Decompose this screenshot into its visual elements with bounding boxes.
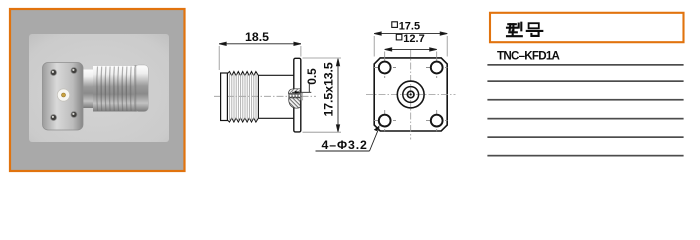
table header orange box xyxy=(490,13,684,42)
dim 17.5 extension lines xyxy=(373,36,375,57)
main centerlines of front view xyxy=(366,94,456,96)
dim 17.5x13.5 extension lines xyxy=(303,57,342,59)
header text HAO (drawn glyph) xyxy=(527,23,543,36)
side view: flange (panel plate) xyxy=(294,58,301,132)
dim 12.7 line with arrows xyxy=(385,48,437,51)
table rule 5 xyxy=(487,136,683,138)
dim 17.5x13.5 vertical line with arrows xyxy=(336,59,339,132)
header text XING (drawn glyph) xyxy=(507,23,522,37)
0.5 protrusion step xyxy=(301,93,303,100)
thread flank lines xyxy=(230,74,256,121)
photo frame (orange border box) xyxy=(10,9,185,171)
thread ridges on cylinder xyxy=(97,67,131,112)
label underline + leader line with arrow xyxy=(316,125,381,151)
dim square12.7 text xyxy=(396,33,424,45)
svg-text:17.5: 17.5 xyxy=(399,21,420,33)
end ring of cylinder xyxy=(135,65,149,112)
centerline (side view axis) xyxy=(214,95,316,97)
svg-text:12.7: 12.7 xyxy=(403,33,424,45)
svg-text:18.5: 18.5 xyxy=(245,30,269,44)
dim 18.5 line with arrows xyxy=(219,42,301,45)
mounting holes front view xyxy=(379,62,443,127)
side view: threaded section outline xyxy=(227,72,258,123)
connector photo: flange plate xyxy=(43,63,84,131)
flange mounting holes xyxy=(51,70,57,76)
hole centerline crosses xyxy=(374,57,448,131)
side view: insulator bushing (hatched) xyxy=(289,89,301,108)
photo inner light panel xyxy=(29,34,169,142)
table rule 4 xyxy=(487,118,683,120)
svg-text:17.5x13.5: 17.5x13.5 xyxy=(322,62,336,116)
dim 17.5 line with arrows xyxy=(374,32,447,35)
svg-text:4–Φ3.2: 4–Φ3.2 xyxy=(322,138,368,152)
center connector circles xyxy=(397,81,424,108)
side view: left end cap xyxy=(221,73,228,121)
table rule 6 xyxy=(487,155,683,157)
table rule 2 xyxy=(487,80,683,82)
connector photo: body cylinder xyxy=(80,65,148,112)
center dielectric + pin xyxy=(57,89,69,101)
table rule 3 xyxy=(487,99,683,101)
svg-text:0.5: 0.5 xyxy=(305,68,319,85)
side view: body between threads and flange xyxy=(258,75,293,118)
dim square17.5 text xyxy=(392,21,420,33)
svg-text:TNC–KFD1A: TNC–KFD1A xyxy=(497,50,561,63)
dim 18.5 extension lines xyxy=(218,46,220,70)
table rule 1 xyxy=(487,64,683,66)
dim 0.5 leader + arrow xyxy=(292,82,311,94)
dim 12.7 extension lines xyxy=(384,52,386,61)
front view square flange outline xyxy=(374,58,447,131)
